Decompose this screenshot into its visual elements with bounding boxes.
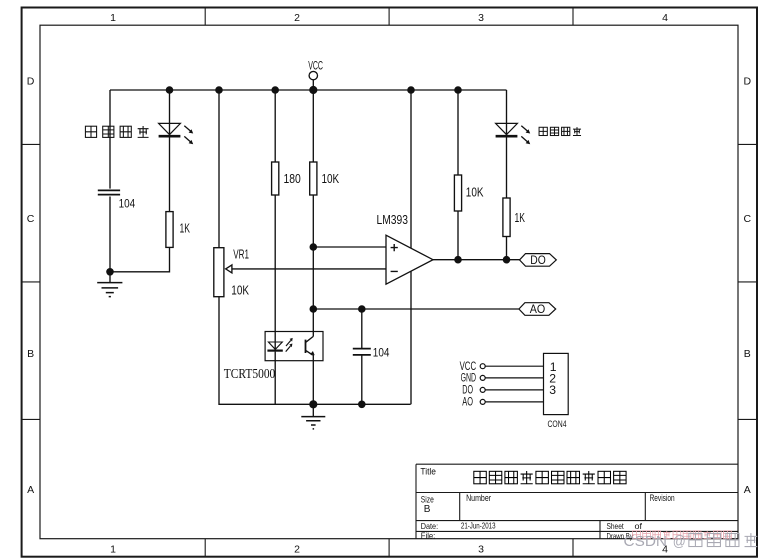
svg-text:of: of xyxy=(635,521,643,531)
svg-text:D: D xyxy=(27,76,35,88)
svg-text:Title: Title xyxy=(420,466,436,476)
svg-text:GND: GND xyxy=(461,373,477,385)
wire VCC rail to resistor 10K (output pull-up) xyxy=(457,90,459,175)
wire AO node down to phototransistor collector xyxy=(312,309,314,336)
wire VCC rail to resistor 180 xyxy=(274,90,276,162)
wire VCC rail to op-amp V+ xyxy=(410,90,412,248)
wire VR1 wiper to op-amp inverting input xyxy=(232,268,386,270)
junction at (219,90) xyxy=(215,86,223,94)
svg-text:1: 1 xyxy=(110,12,116,24)
pin 2 wire GND xyxy=(461,373,544,385)
op-amp U1 LM393 xyxy=(386,235,433,284)
capacitor 104 (left) xyxy=(98,190,136,210)
svg-text:VR1: VR1 xyxy=(233,247,249,261)
junction at (313.3,90) xyxy=(309,86,317,94)
capacitor 104 (filter) xyxy=(353,347,390,359)
svg-text:1: 1 xyxy=(110,544,116,556)
pin 3 wire DO xyxy=(462,385,543,397)
svg-text:104: 104 xyxy=(373,347,390,359)
wire node to op-amp non-inverting input xyxy=(313,246,386,248)
wire resistor 10K to node xyxy=(312,195,314,247)
svg-text:10K: 10K xyxy=(466,185,484,199)
label 电源指示 xyxy=(85,126,148,138)
svg-text:3: 3 xyxy=(549,383,556,397)
optical sensor TCRT5000 xyxy=(265,332,323,361)
svg-text:104: 104 xyxy=(119,199,136,211)
wire TCRT LED cathode to ground rail xyxy=(274,352,276,405)
junction at (361.8,309) xyxy=(358,305,366,313)
svg-text:LM393: LM393 xyxy=(377,213,409,227)
junction at (361.8,404.3) xyxy=(358,401,366,409)
LED switch indicator xyxy=(496,123,531,144)
resistor 10K (pull-up) xyxy=(310,162,340,195)
svg-text:Number: Number xyxy=(466,493,491,503)
wire VCC rail to resistor 10K xyxy=(312,90,314,162)
svg-text:2: 2 xyxy=(294,544,300,556)
junction at (169.5,90) xyxy=(166,86,174,94)
svg-text:AO: AO xyxy=(462,397,473,409)
junction at (506.5,259.7) xyxy=(503,256,511,264)
pin 1 wire VCC xyxy=(460,361,544,373)
svg-text:DO: DO xyxy=(530,253,546,267)
wire LED to resistor 1K (switch) xyxy=(506,138,508,199)
svg-text:VCC: VCC xyxy=(460,361,477,373)
connector CON4 xyxy=(544,353,569,430)
wire LED to resistor 1K xyxy=(169,138,171,212)
svg-text:2: 2 xyxy=(294,12,300,24)
resistor 1K (power LED) xyxy=(166,212,191,248)
junction at (313.3,404.3) xyxy=(309,400,317,408)
wire VCC rail corner down to switch LED xyxy=(506,90,508,136)
svg-text:1K: 1K xyxy=(515,211,526,225)
wire to power LED xyxy=(169,90,171,136)
port DO xyxy=(520,253,557,267)
svg-text:4: 4 xyxy=(662,12,668,24)
svg-text:1K: 1K xyxy=(180,221,191,235)
junction at (458,90) xyxy=(454,86,462,94)
wire resistor 1K to ground node xyxy=(110,247,170,271)
svg-text:File:: File: xyxy=(421,530,436,540)
svg-text:A: A xyxy=(27,484,34,496)
port AO xyxy=(519,302,556,316)
resistor 1K (switch LED) xyxy=(503,198,526,237)
wire op-amp output (DO net) xyxy=(433,259,520,261)
junction at (313.3,309) xyxy=(310,305,318,313)
svg-text:3: 3 xyxy=(478,12,484,24)
svg-text:B: B xyxy=(27,348,34,360)
wire phototransistor emitter to ground xyxy=(312,355,314,405)
svg-text:C: C xyxy=(27,213,35,225)
svg-text:C: C xyxy=(744,213,752,225)
junction at (458,259.7) xyxy=(454,256,462,264)
svg-text:180: 180 xyxy=(284,172,301,186)
svg-text:Sheet: Sheet xyxy=(607,521,625,531)
wire resistor 180 to TCRT5000 LED anode xyxy=(274,195,276,351)
svg-text:Size: Size xyxy=(421,494,434,504)
svg-text:10K: 10K xyxy=(322,172,340,186)
svg-text:VCC: VCC xyxy=(308,58,323,72)
junction at (313.3,247) xyxy=(310,243,318,251)
wire resistor 10K to DO net xyxy=(457,211,459,260)
wire node down to AO node xyxy=(312,247,314,309)
svg-text:3: 3 xyxy=(478,544,484,556)
svg-text:AO: AO xyxy=(530,302,546,316)
svg-text:CON4: CON4 xyxy=(548,419,567,430)
svg-text:D: D xyxy=(744,76,752,88)
power symbol VCC xyxy=(308,58,323,90)
wire AO node to capacitor 104 xyxy=(361,309,363,348)
wire VCC rail to VR1 xyxy=(218,90,220,248)
svg-text:CSDN: CSDN xyxy=(624,533,668,550)
svg-text:B: B xyxy=(424,504,431,515)
LED power indicator xyxy=(159,123,194,144)
pin 4 wire AO xyxy=(462,397,543,409)
resistor 10K (output pull-up) xyxy=(454,175,484,211)
wire left branch lower to ground xyxy=(109,197,111,283)
junction at (275.2,90) xyxy=(271,86,279,94)
svg-text:21-Jun-2013: 21-Jun-2013 xyxy=(461,522,496,531)
wire VR1 bottom to ground rail xyxy=(219,297,411,405)
junction at (110,271.8) xyxy=(106,268,114,276)
wire left branch upper xyxy=(109,90,111,189)
svg-text:DO: DO xyxy=(462,385,473,397)
svg-text:Revision: Revision xyxy=(650,493,675,503)
wire resistor 1K to DO net xyxy=(506,237,508,260)
wire top VCC power rail xyxy=(110,89,507,91)
ground (left) xyxy=(97,283,122,297)
junction at (411,90) xyxy=(407,86,415,94)
resistor 180 xyxy=(272,162,301,195)
svg-text:TCRT5000: TCRT5000 xyxy=(224,366,276,381)
potentiometer VR1 body xyxy=(214,248,232,297)
wire op-amp V- to ground rail xyxy=(410,271,412,404)
svg-text:10K: 10K xyxy=(231,284,249,298)
ground (bottom) xyxy=(301,404,325,429)
wire capacitor 104 to ground rail xyxy=(361,355,363,404)
svg-text:B: B xyxy=(744,348,751,360)
label 开关指示 xyxy=(539,127,581,136)
wire AO net xyxy=(313,308,519,310)
svg-text:@: @ xyxy=(673,533,686,550)
svg-text:A: A xyxy=(744,484,751,496)
